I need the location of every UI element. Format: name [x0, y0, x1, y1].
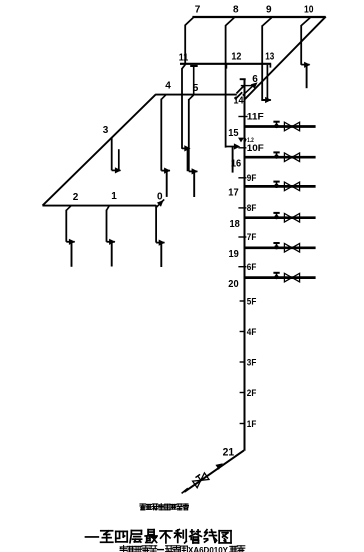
- hydrant 5 jog: [189, 95, 194, 100]
- pipe: branch at node 20: [245, 276, 316, 279]
- valve stem node 20: [276, 273, 278, 276]
- svg-text:2F: 2F: [247, 388, 257, 399]
- hydrant 3 bottom run: [112, 169, 121, 171]
- pipe: branch at node 19: [245, 246, 316, 249]
- floor tick 1F: [240, 423, 246, 425]
- svg-text:4F: 4F: [247, 327, 257, 338]
- svg-text:14: 14: [234, 96, 244, 107]
- svg-text:8F: 8F: [247, 203, 257, 214]
- riser 7-11 upper: [184, 25, 186, 65]
- elbow below 9: [262, 18, 271, 26]
- svg-text:6: 6: [252, 74, 258, 85]
- valve gate node 19: [284, 244, 292, 253]
- end tick of suction pipe: [182, 488, 188, 493]
- tick below bar right end: [269, 64, 271, 67]
- hydrant 1 jog: [106, 206, 109, 211]
- pipe: diagonal run to top right: [245, 17, 326, 100]
- pipe: branch at node 16: [245, 156, 316, 159]
- svg-text:15: 15: [228, 128, 238, 139]
- svg-text:19: 19: [229, 249, 239, 260]
- arrow at 13 bottom: [265, 97, 271, 103]
- svg-text:6F: 6F: [247, 262, 257, 273]
- svg-text:13: 13: [265, 52, 274, 63]
- arrow at hydrant 3: [115, 167, 121, 173]
- valve stem node 19: [276, 244, 278, 247]
- valve stem node 18: [276, 214, 278, 217]
- svg-text:3: 3: [103, 125, 109, 136]
- valve stem node 17: [276, 182, 278, 185]
- svg-text:11: 11: [179, 52, 189, 63]
- elbow below 10: [301, 18, 310, 26]
- svg-text:1F: 1F: [247, 419, 257, 430]
- hydrant 4 riser: [160, 99, 162, 171]
- valve stem node 16: [276, 153, 278, 156]
- svg-text:10F: 10F: [247, 143, 264, 154]
- flow arrow toward 6: [243, 85, 254, 96]
- hydrant 0 riser: [155, 205, 157, 242]
- riser 13 bottom run: [261, 99, 270, 101]
- hydrant 3 riser: [111, 137, 113, 170]
- svg-text:+1.2: +1.2: [244, 137, 254, 144]
- svg-text:16: 16: [231, 159, 241, 170]
- hydrant 11 elbow: [182, 147, 189, 149]
- flow arrow at manifold end: [156, 199, 164, 207]
- level mark +1.2 at node 15: [238, 138, 244, 143]
- svg-text:21: 21: [223, 447, 235, 459]
- svg-text:18: 18: [230, 219, 240, 230]
- riser 9-13: [261, 25, 263, 100]
- arrow at hydrant 11: [184, 145, 190, 151]
- hydrant 12 elbow: [226, 146, 235, 148]
- hydrant 4 jog: [161, 95, 166, 100]
- svg-text:20: 20: [228, 279, 238, 290]
- junction 14 jog b: [237, 85, 245, 94]
- elbow below 8: [225, 18, 234, 26]
- svg-text:9: 9: [266, 5, 272, 16]
- svg-text:7: 7: [195, 5, 201, 16]
- hydrant 10 elbow: [301, 64, 309, 66]
- svg-text:5: 5: [193, 83, 199, 94]
- pipe: branch at node 15: [245, 125, 316, 128]
- floor tick 6F: [238, 266, 246, 268]
- floor tick 9F: [238, 177, 246, 179]
- svg-text:7F: 7F: [247, 232, 257, 243]
- floor tick 10F: [238, 147, 246, 149]
- hydrant 11 inner drop: [186, 149, 188, 171]
- pipe: upper floor run 11-12-13: [180, 63, 271, 65]
- valve stem node 15: [276, 122, 278, 125]
- svg-text:17: 17: [228, 188, 238, 199]
- valve gate node 16: [284, 153, 292, 162]
- flow arrow on suction pipe: [215, 463, 222, 469]
- hydrant 0 connection: [156, 242, 164, 244]
- hydrant 1 connection: [107, 241, 115, 243]
- riser top cap: [240, 78, 246, 80]
- pipe: ground floor run 2-1-0: [43, 205, 157, 207]
- hydrant 2 riser: [65, 210, 67, 242]
- branch toward 6: [241, 85, 253, 87]
- hydrant 12 drop: [232, 147, 234, 173]
- pipe: branch at node 18: [245, 216, 316, 219]
- hydrant 5 riser: [188, 99, 190, 171]
- hydrant 1 riser: [106, 210, 108, 242]
- hydrant 5 connection: [189, 170, 198, 172]
- floor tick 4F: [240, 331, 246, 333]
- elbow below 7: [185, 18, 193, 26]
- hydrant 4 connection: [161, 170, 170, 172]
- valve gate node 17: [284, 182, 292, 191]
- floor tick 3F: [240, 361, 246, 363]
- hydrant 2 jog: [66, 206, 71, 211]
- riser 13 second leg: [266, 65, 268, 101]
- floor tick 5F: [240, 300, 246, 302]
- valve on suction pipe: [192, 472, 209, 488]
- riser 8-12: [225, 25, 227, 147]
- svg-text:11F: 11F: [247, 112, 264, 123]
- watermark text (clipped): [120, 545, 127, 552]
- arrow at hydrant 12: [234, 143, 240, 149]
- valve gate node 20: [284, 273, 292, 282]
- svg-text:2: 2: [73, 192, 79, 203]
- hydrant 10 drop: [306, 65, 308, 88]
- hydrant 2 connection: [66, 241, 74, 243]
- pipe: suction diagonal: [184, 450, 244, 492]
- pipe: long diagonal from ground run: [43, 95, 156, 206]
- svg-text:5F: 5F: [247, 296, 257, 307]
- svg-text:12: 12: [231, 52, 241, 63]
- floor tick 2F: [240, 392, 246, 394]
- pipe: middle floor run 4-5: [155, 94, 237, 96]
- note: connect to non-negative-pressure water supply unit: [140, 504, 146, 510]
- riser 7-11 lower: [181, 68, 183, 149]
- tick below bar at 12: [225, 64, 227, 68]
- riser 10: [300, 25, 302, 65]
- hydrant 5 cap: [190, 65, 198, 67]
- junction 14 jog a: [235, 92, 242, 99]
- svg-text:9F: 9F: [247, 173, 257, 184]
- arrow at hydrant 10: [304, 62, 310, 68]
- hydrant 3 up pipe: [118, 149, 120, 170]
- svg-text:3F: 3F: [247, 357, 257, 368]
- pipe: branch at node 17: [245, 185, 316, 188]
- floor tick 8F: [238, 207, 246, 209]
- valve gate node 18: [284, 213, 292, 222]
- hydrant 5 stem: [193, 67, 195, 96]
- pipe: top header run: [192, 16, 325, 18]
- title: floors 1-4 most unfavourable pipeline diagram: [85, 536, 98, 538]
- svg-text:1: 1: [111, 191, 117, 202]
- svg-text:8: 8: [233, 5, 239, 16]
- floor tick 11F: [238, 116, 247, 118]
- svg-text:10: 10: [304, 5, 314, 16]
- riser 7 jog below bar: [182, 64, 186, 68]
- svg-text:XA6D010Y: XA6D010Y: [188, 546, 229, 552]
- floor tick 7F: [238, 236, 246, 238]
- pipe: main riser: [244, 79, 246, 451]
- svg-text:4: 4: [165, 81, 171, 92]
- valve gate node 15: [284, 122, 292, 131]
